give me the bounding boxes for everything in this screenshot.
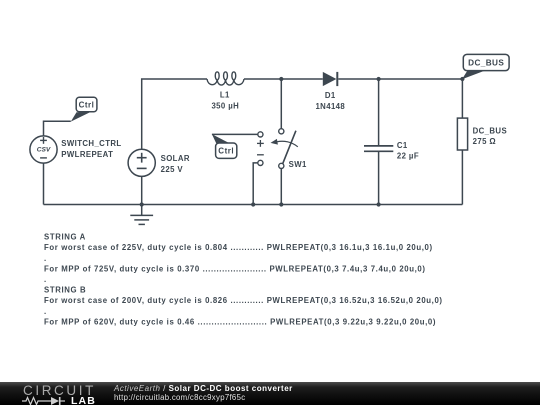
flag Ctrl (on SW1 control input): [212, 134, 237, 158]
switch SW1: [271, 129, 298, 169]
diode D1: [323, 72, 338, 86]
inductor L1 coil: [207, 72, 244, 85]
capacitor C1: [364, 146, 393, 151]
wire bottom rail: [44, 204, 463, 206]
svg-text:For worst case of 225V, duty c: For worst case of 225V, duty cycle is 0.…: [44, 243, 433, 252]
svg-text:.: .: [44, 275, 47, 284]
svg-text:SOLAR: SOLAR: [161, 154, 190, 163]
wire SW1 control plus lead: [212, 133, 258, 135]
wire SW1 bottom lead: [280, 169, 282, 205]
annotation text block STRING A / STRING B: [44, 233, 443, 327]
label D1 1N4148: [315, 91, 345, 111]
label L1 350 uH: [211, 91, 239, 111]
svg-text:SW1: SW1: [289, 160, 307, 169]
wire resistor DC_BUS top lead: [461, 79, 463, 118]
wire solar source bottom lead: [141, 177, 143, 205]
wire resistor DC_BUS bottom lead: [461, 150, 463, 205]
footer title and url: [114, 384, 293, 403]
wire CSV source bottom lead: [43, 163, 45, 204]
wire SW1 top lead: [280, 79, 282, 129]
svg-text:Ctrl: Ctrl: [218, 147, 234, 156]
wire CSV source top lead: [44, 121, 71, 136]
label SWITCH_CTRL PWLREPEAT: [61, 139, 121, 159]
SW1 control terminals: [257, 132, 264, 166]
CircuitLab logo: [23, 383, 103, 405]
svg-text:1N4148: 1N4148: [315, 102, 345, 111]
svg-text:350 µH: 350 µH: [211, 101, 239, 110]
voltage source V1 SWITCH_CTRL PWLREPEAT (CSV): [30, 136, 57, 163]
svg-text:DC_BUS: DC_BUS: [473, 126, 507, 135]
svg-text:PWLREPEAT: PWLREPEAT: [61, 150, 113, 159]
svg-text:275 Ω: 275 Ω: [473, 137, 496, 146]
svg-text:22 µF: 22 µF: [397, 152, 419, 161]
svg-text:For worst case of 200V, duty c: For worst case of 200V, duty cycle is 0.…: [44, 296, 443, 305]
svg-text:C1: C1: [397, 141, 408, 150]
svg-text:SWITCH_CTRL: SWITCH_CTRL: [61, 139, 121, 148]
wire top rail right segment: [338, 78, 462, 80]
svg-text:STRING B: STRING B: [44, 286, 86, 295]
flag DC_BUS: [462, 54, 509, 79]
svg-text:.: .: [44, 307, 47, 316]
flag Ctrl (on CSV source output): [71, 97, 97, 121]
svg-text:STRING A: STRING A: [44, 233, 86, 242]
wire C1 bottom lead: [378, 151, 380, 204]
svg-text:For MPP of 725V, duty cycle is: For MPP of 725V, duty cycle is 0.370 ...…: [44, 264, 426, 273]
wire top rail left segment: [142, 79, 207, 149]
svg-text:DC_BUS: DC_BUS: [468, 58, 504, 67]
svg-text:Ctrl: Ctrl: [79, 100, 95, 109]
svg-text:.: .: [44, 254, 47, 263]
wire top rail middle segment: [244, 78, 323, 80]
node junction dots: [140, 77, 465, 207]
svg-text:225 V: 225 V: [161, 165, 184, 174]
label DC_BUS 275 ohm: [473, 126, 507, 146]
footer bar: [0, 382, 540, 405]
wire C1 top lead: [378, 79, 380, 145]
svg-text:L1: L1: [220, 91, 230, 100]
resistor DC_BUS 275 ohm: [457, 118, 467, 150]
svg-text:D1: D1: [325, 91, 336, 100]
svg-text:For MPP of 620V, duty cycle is: For MPP of 620V, duty cycle is 0.46 ....…: [44, 317, 436, 326]
svg-text:CSV: CSV: [37, 147, 51, 154]
ground: [130, 205, 153, 225]
voltage source SOLAR 225 V: [128, 149, 155, 176]
label SOLAR 225 V: [161, 154, 190, 174]
label C1 22 uF: [397, 141, 419, 161]
wire SW1 control minus lead: [253, 163, 258, 205]
